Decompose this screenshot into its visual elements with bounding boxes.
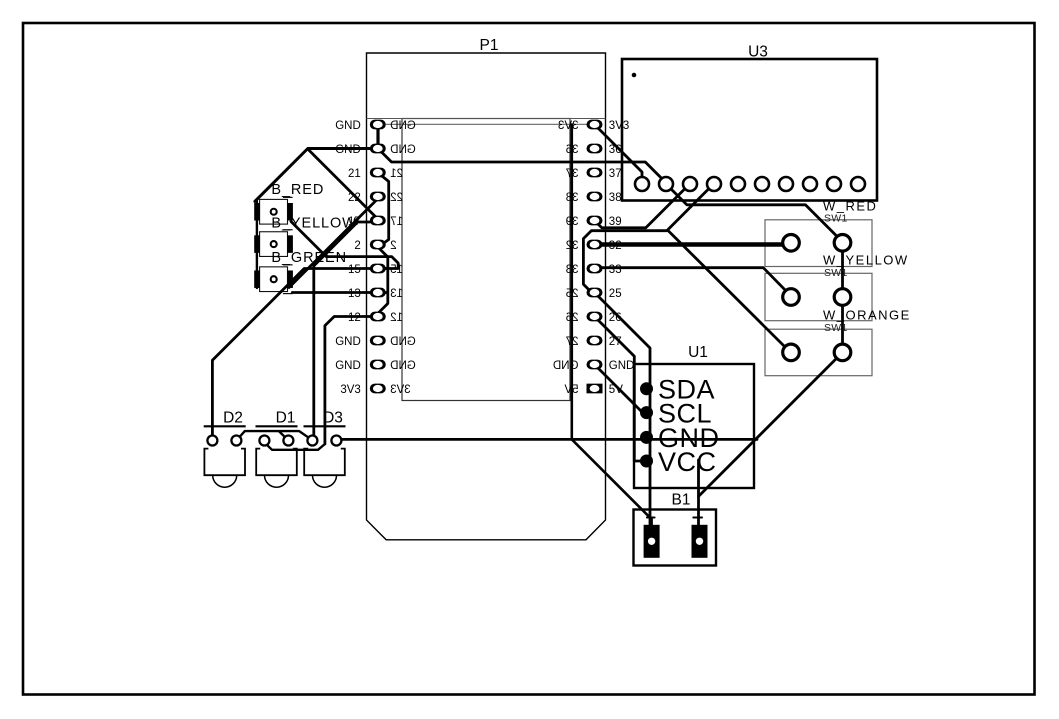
svg-text:33: 33 (566, 264, 579, 276)
svg-text:B_GREEN: B_GREEN (271, 250, 347, 266)
svg-text:32: 32 (566, 240, 579, 252)
svg-text:VCC: VCC (658, 447, 717, 477)
svg-text:12: 12 (390, 312, 403, 324)
svg-text:17: 17 (390, 216, 403, 228)
svg-text:SW1: SW1 (824, 212, 848, 224)
svg-text:13: 13 (390, 288, 403, 300)
svg-text:5V: 5V (564, 384, 578, 396)
svg-text:U3: U3 (748, 44, 768, 61)
svg-text:U1: U1 (688, 344, 708, 361)
svg-text:5V: 5V (609, 384, 623, 396)
svg-text:D2: D2 (223, 410, 243, 427)
svg-text:37: 37 (609, 168, 622, 180)
svg-text:22: 22 (390, 192, 403, 204)
svg-text:GND: GND (335, 144, 361, 156)
svg-text:B_YELLOW: B_YELLOW (271, 216, 356, 232)
svg-text:38: 38 (566, 192, 579, 204)
svg-text:GND: GND (553, 360, 579, 372)
svg-text:32: 32 (609, 240, 622, 252)
svg-text:25: 25 (566, 288, 579, 300)
svg-text:26: 26 (566, 312, 579, 324)
svg-text:B1: B1 (672, 492, 691, 509)
svg-text:33: 33 (609, 264, 622, 276)
svg-text:B_RED: B_RED (271, 182, 324, 198)
svg-text:D3: D3 (323, 410, 343, 427)
svg-text:22: 22 (348, 192, 361, 204)
svg-text:D1: D1 (276, 410, 296, 427)
svg-text:15: 15 (348, 264, 361, 276)
svg-text:39: 39 (609, 216, 622, 228)
svg-text:3V3: 3V3 (558, 120, 578, 132)
svg-text:37: 37 (566, 168, 579, 180)
svg-text:GND: GND (335, 120, 361, 132)
svg-text:2: 2 (354, 240, 360, 252)
svg-text:21: 21 (390, 168, 403, 180)
svg-text:38: 38 (609, 192, 622, 204)
svg-text:SW1: SW1 (824, 322, 848, 334)
svg-text:15: 15 (390, 264, 403, 276)
svg-text:W_RED: W_RED (823, 199, 877, 214)
svg-text:26: 26 (609, 312, 622, 324)
svg-text:3V3: 3V3 (609, 120, 629, 132)
svg-text:W_ORANGE: W_ORANGE (823, 308, 911, 323)
svg-text:GND: GND (335, 336, 361, 348)
svg-text:36: 36 (609, 144, 622, 156)
svg-text:27: 27 (566, 336, 579, 348)
svg-text:3V3: 3V3 (340, 384, 360, 396)
svg-text:GND: GND (390, 120, 416, 132)
svg-text:36: 36 (566, 144, 579, 156)
svg-text:27: 27 (609, 336, 622, 348)
svg-text:2: 2 (390, 240, 396, 252)
svg-text:13: 13 (348, 288, 361, 300)
svg-text:GND: GND (390, 360, 416, 372)
svg-text:25: 25 (609, 288, 622, 300)
svg-text:GND: GND (609, 360, 635, 372)
svg-text:P1: P1 (480, 37, 499, 54)
svg-text:39: 39 (566, 216, 579, 228)
svg-text:GND: GND (390, 144, 416, 156)
svg-text:GND: GND (390, 336, 416, 348)
svg-text:W_YELLOW: W_YELLOW (823, 253, 909, 268)
svg-text:SW1: SW1 (824, 267, 848, 279)
svg-text:3V3: 3V3 (390, 384, 410, 396)
svg-text:GND: GND (335, 360, 361, 372)
svg-text:12: 12 (348, 312, 361, 324)
svg-text:21: 21 (348, 168, 361, 180)
